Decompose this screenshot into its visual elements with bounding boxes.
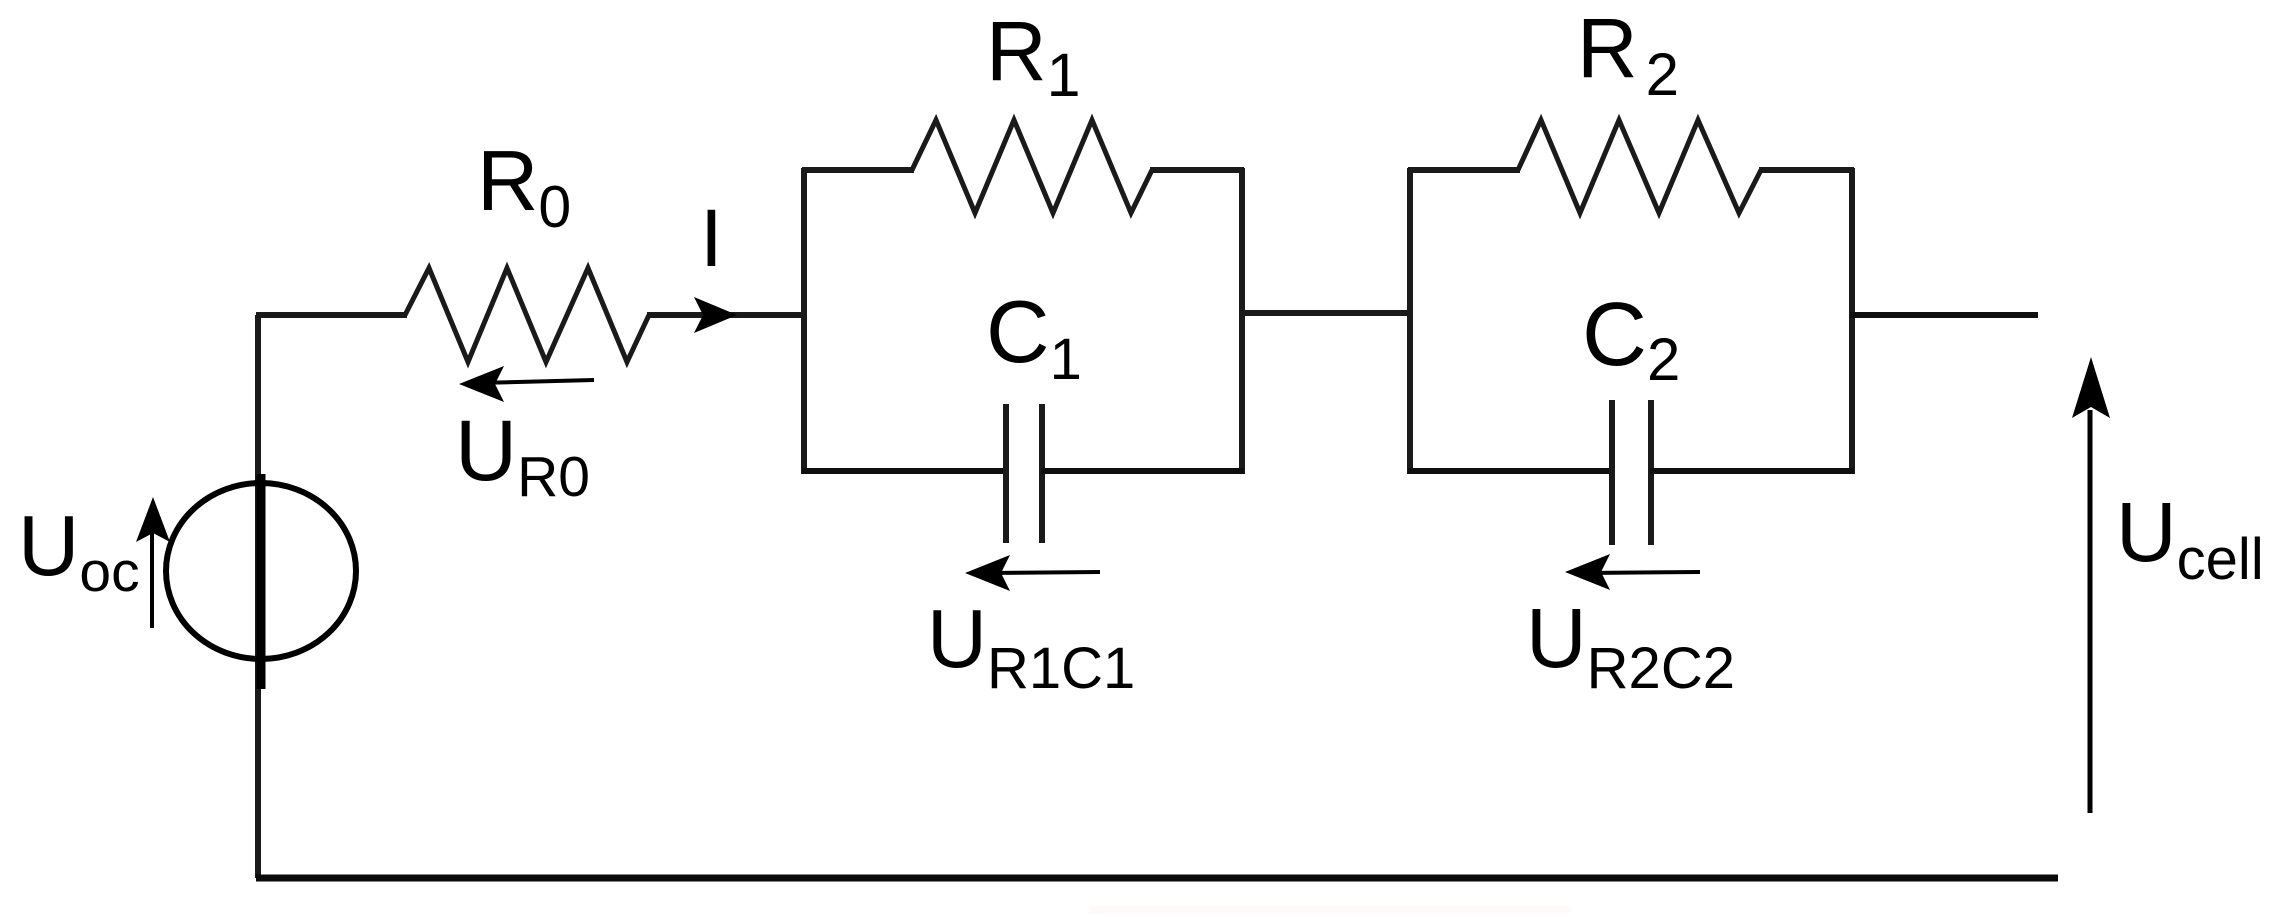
wire box2 to right terminal [1850, 312, 2038, 318]
faint watermark remnant [1090, 906, 1570, 913]
wire bottom return [256, 875, 2058, 882]
box1 left vertical [801, 168, 807, 474]
resistor R0 [405, 268, 649, 362]
box2 top-left wire [1408, 167, 1520, 173]
capacitor C1 [1003, 404, 1009, 543]
wire left vertical (source branch) [255, 315, 261, 878]
box2 bottom-right wire [1650, 468, 1854, 474]
resistor R2 [1518, 120, 1761, 213]
box1 bottom-right wire [1041, 468, 1244, 474]
wire R0 to node I / box1 [647, 312, 806, 318]
voltage source U_oc circle [166, 483, 356, 659]
voltage arrow U_cell [2088, 410, 2093, 813]
box2 left vertical [1407, 168, 1413, 474]
resistor R1 [912, 120, 1152, 213]
voltage arrow U_oc [150, 508, 154, 628]
box1 right vertical [1239, 168, 1245, 474]
current arrow I head [694, 297, 737, 333]
box2 right vertical [1849, 168, 1855, 474]
box1 top-right wire [1150, 167, 1244, 173]
voltage arrow U_R1C1 [984, 572, 1100, 573]
box2 bottom-left wire [1408, 468, 1613, 474]
box1 top-left wire [802, 167, 914, 173]
capacitor C2 [1609, 400, 1615, 545]
box2 top-right wire [1759, 167, 1854, 173]
voltage arrow U_R0 [478, 380, 594, 383]
svg-text:I: I [700, 193, 723, 284]
wire between box1 and box2 [1240, 310, 1412, 316]
voltage source inner bar [257, 474, 266, 689]
wire top-left horizontal to R0 [256, 312, 407, 318]
voltage arrow U_R2C2 [1584, 572, 1700, 573]
box1 bottom-left wire [802, 468, 1007, 474]
